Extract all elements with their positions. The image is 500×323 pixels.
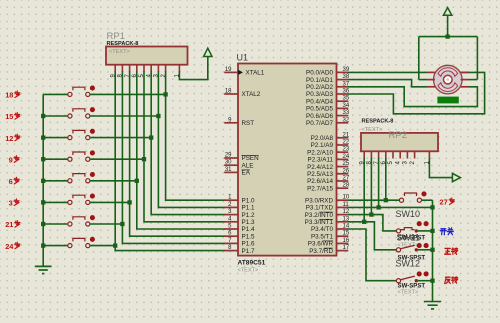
svg-text:P0.6/AD6: P0.6/AD6 <box>306 113 333 120</box>
button 21步 left terminal <box>68 222 72 226</box>
wire power stem <box>447 15 449 36</box>
junction bus row 2 <box>41 114 45 118</box>
wire power left drop <box>418 37 420 80</box>
svg-text:34: 34 <box>343 103 350 109</box>
wire RP1 pin 3 to P1.1 <box>158 71 225 207</box>
label 6步 glyph <box>14 177 19 184</box>
wire bus to button row 3 <box>43 137 68 139</box>
svg-text:P1.7: P1.7 <box>242 248 255 255</box>
motor left pin stub y=79.6 <box>427 79 435 81</box>
svg-text:XTAL2: XTAL2 <box>242 91 261 98</box>
RP2 pin 6 lead <box>385 151 387 158</box>
wire button 27 to bus <box>422 199 433 201</box>
button 21步 right terminal <box>86 222 90 226</box>
switch SW12 marker dots <box>417 271 422 276</box>
button 3步 actuator bar <box>73 195 85 198</box>
switch SW12 lever <box>401 276 415 280</box>
pin 11 lead <box>337 206 349 208</box>
button 18步 right terminal <box>86 92 90 96</box>
button 9步 actuator bar <box>73 152 85 155</box>
svg-text:AT89C51: AT89C51 <box>238 260 266 267</box>
svg-text:3: 3 <box>9 199 13 208</box>
svg-text:29: 29 <box>225 153 232 159</box>
button 6步 right terminal <box>86 179 90 183</box>
button 15步 left terminal <box>68 114 72 118</box>
svg-text:P0.0/AD0: P0.0/AD0 <box>306 70 333 77</box>
pin 34 lead <box>337 107 349 109</box>
switch SW10 marker dots <box>417 221 422 226</box>
button 24步 actuator bar <box>73 238 85 241</box>
svg-text:P3.2/INT0: P3.2/INT0 <box>305 212 334 219</box>
button 3步 marker dot <box>90 194 95 199</box>
svg-text:6: 6 <box>9 177 13 186</box>
wire P3.0 to button <box>348 199 399 201</box>
svg-text:21: 21 <box>343 132 350 138</box>
pin 25 lead <box>337 166 349 168</box>
wire SW12 to bus <box>418 280 433 282</box>
power terminal (RP1) <box>204 48 212 56</box>
label 15步 glyph <box>15 113 20 120</box>
pin 29 lead <box>224 157 238 159</box>
button 21步 marker dot <box>90 215 95 220</box>
svg-text:21: 21 <box>5 220 13 229</box>
svg-text:P0.1/AD1: P0.1/AD1 <box>306 77 333 84</box>
wire P3.4 to SW12 <box>348 229 396 281</box>
wire power right to motor <box>469 79 478 81</box>
button 18步 marker dot <box>90 86 95 91</box>
wire RP1 pin 8 to P1.6 <box>122 71 225 243</box>
RP2 pin 1 lead <box>428 151 430 158</box>
svg-text:9: 9 <box>9 155 13 164</box>
button 24步 marker dot <box>90 237 95 242</box>
RP2 pin 5 lead <box>392 151 394 158</box>
button 12步 right terminal <box>86 136 90 140</box>
button 15步 marker dot <box>90 107 95 112</box>
RP2 pin 7 lead <box>378 151 380 158</box>
power terminal (RP2) <box>452 173 460 181</box>
button 3步 right terminal <box>86 200 90 204</box>
pin 8 lead <box>224 250 238 252</box>
motor label block <box>437 97 458 104</box>
button 3步 left terminal <box>68 200 72 204</box>
svg-text:P3.7/RD: P3.7/RD <box>309 248 333 255</box>
button 15步 right terminal <box>86 114 90 118</box>
wire button row 8 to RP1 column <box>90 245 115 247</box>
wire power right drop <box>476 37 478 80</box>
wire RP1 pin 6 to P1.4 <box>137 71 225 229</box>
button 18步 actuator bar <box>73 87 85 90</box>
wire bus to button row 2 <box>43 115 68 117</box>
svg-text:35: 35 <box>343 96 350 102</box>
pin 33 lead <box>337 115 349 117</box>
label reverse(fanzhuan) <box>445 277 451 283</box>
label 18步 glyph <box>15 91 20 98</box>
wire RP1 pin 7 to P1.5 <box>130 71 225 236</box>
svg-text:RP2: RP2 <box>389 130 407 141</box>
RP2 pin 3 lead <box>406 151 408 158</box>
motor hub center <box>447 78 450 81</box>
svg-text:RST: RST <box>242 120 255 127</box>
svg-text:19: 19 <box>225 67 232 73</box>
svg-text:RESPACK-8: RESPACK-8 <box>107 41 139 47</box>
wire P3.3 to SW11 <box>348 222 396 250</box>
svg-text:U1: U1 <box>237 53 249 63</box>
junction row 5 on column <box>135 179 139 183</box>
motor hub <box>444 75 453 84</box>
XTAL1 clock marker <box>238 70 243 75</box>
button 27 actuator bar <box>405 193 417 196</box>
svg-text:23: 23 <box>343 147 350 153</box>
power terminal (motor) <box>443 8 451 16</box>
switch SW12 right terminal <box>415 279 418 282</box>
pin 35 lead <box>337 100 349 102</box>
motor right pin stub y=86.8 <box>461 86 469 88</box>
stepper motor body <box>434 65 463 94</box>
svg-text:XTAL1: XTAL1 <box>246 70 265 77</box>
svg-text:27: 27 <box>440 198 448 207</box>
svg-text:EA: EA <box>242 170 251 177</box>
svg-text:P2.7/A15: P2.7/A15 <box>307 185 333 192</box>
button 12步 left terminal <box>68 136 72 140</box>
RP2 pin 4 lead <box>399 151 401 158</box>
junction bus row 6 <box>41 200 45 204</box>
junction bus row 5 <box>41 179 45 183</box>
label 24步 glyph <box>15 242 20 249</box>
svg-text:22: 22 <box>343 140 350 146</box>
svg-text:15: 15 <box>5 112 13 121</box>
ground (right) <box>424 302 441 309</box>
pin 23 lead <box>337 151 349 153</box>
svg-text:31: 31 <box>225 167 232 173</box>
svg-text:<TEXT>: <TEXT> <box>238 268 259 274</box>
motor pole arc bottom <box>438 83 458 92</box>
wire bus to button row 1 <box>43 93 68 95</box>
svg-text:P1.3: P1.3 <box>242 219 255 226</box>
switch SW11 left terminal <box>396 248 400 252</box>
switch SW12 left terminal <box>396 279 400 283</box>
pin 16 lead <box>337 242 349 244</box>
wire bus to button row 6 <box>43 201 68 203</box>
pin 7 lead <box>224 242 238 244</box>
wire button row 1 to RP1 column <box>90 93 166 95</box>
left ground bus <box>42 94 44 266</box>
junction P3.3 pull-up <box>362 220 366 224</box>
button 12步 actuator bar <box>73 130 85 133</box>
pin 2 lead <box>224 206 238 208</box>
wire P3.2 to SW10 <box>348 215 396 231</box>
motor left pin stub y=86.8 <box>427 86 435 88</box>
svg-text:RESPACK-8: RESPACK-8 <box>362 119 394 125</box>
svg-text:25: 25 <box>343 161 350 167</box>
pin 24 lead <box>337 158 349 160</box>
svg-text:ALE: ALE <box>242 162 254 169</box>
resistor pack RP2 body <box>361 133 438 151</box>
RP1 pin 4 lead <box>150 65 152 72</box>
junction bus row 7 <box>41 222 45 226</box>
switch SW11 lever <box>401 245 415 249</box>
junction bus row 8 <box>41 243 45 247</box>
wire bus to button row 8 <box>43 245 68 247</box>
svg-text:P0.5/AD5: P0.5/AD5 <box>306 106 333 113</box>
wire RP2 pin8 to P3.2 <box>370 158 372 215</box>
junction row 1 on column <box>163 92 167 96</box>
button 6步 actuator bar <box>73 174 85 177</box>
button 9步 marker dot <box>90 150 95 155</box>
svg-text:P1.1: P1.1 <box>242 205 255 212</box>
svg-text:<TEXT>: <TEXT> <box>362 127 383 133</box>
svg-text:P0.4/AD4: P0.4/AD4 <box>306 98 333 105</box>
pin 18 lead <box>224 93 238 95</box>
svg-text:SW11: SW11 <box>397 232 420 242</box>
label forward(zhengzhuan) <box>445 248 451 254</box>
pin 5 lead <box>224 228 238 230</box>
pin 12 lead <box>337 214 349 216</box>
svg-text:P0.3/AD3: P0.3/AD3 <box>306 91 333 98</box>
button 24步 left terminal <box>68 244 72 248</box>
junction P3.0 pull-up <box>384 198 388 202</box>
switch SW11 right terminal <box>415 248 418 251</box>
svg-text:P0.2/AD2: P0.2/AD2 <box>306 84 333 91</box>
pin 13 lead <box>337 221 349 223</box>
svg-text:28: 28 <box>343 183 350 189</box>
label 27step glyph <box>449 198 454 205</box>
pin 26 lead <box>337 173 349 175</box>
wire P0.3 to motor <box>348 72 485 113</box>
junction SW11 on bus <box>430 248 434 252</box>
wire SW11 to bus <box>418 249 433 251</box>
RP1 pin 3 lead <box>157 65 159 72</box>
button 15步 actuator bar <box>73 109 85 112</box>
svg-text:30: 30 <box>225 160 232 166</box>
svg-text:P3.4/T0: P3.4/T0 <box>311 226 334 233</box>
junction row 2 on column <box>156 114 160 118</box>
MCU U1 body <box>238 64 337 256</box>
wire RP2 pin6 to P3.0 <box>385 158 387 200</box>
pin 4 lead <box>224 221 238 223</box>
wire power left to motor <box>419 79 427 81</box>
wire bus to button row 4 <box>43 158 68 160</box>
pin 36 lead <box>337 93 349 95</box>
button 6步 marker dot <box>90 172 95 177</box>
junction SW12 on bus <box>430 279 434 283</box>
wire RP1 pin 5 to P1.3 <box>144 71 225 222</box>
svg-text:P2.6/A14: P2.6/A14 <box>307 178 333 185</box>
motor left pin stub y=72.4 <box>427 71 435 73</box>
button 9步 right terminal <box>86 157 90 161</box>
button 24步 right terminal <box>86 244 90 248</box>
RP2 pin 9 lead <box>363 151 365 158</box>
pin 15 lead <box>337 235 349 237</box>
junction row 3 on column <box>149 135 153 139</box>
pin 10 lead <box>337 199 349 201</box>
junction P3.1 pull-up <box>376 205 380 209</box>
svg-text:P1.6: P1.6 <box>242 241 255 248</box>
label 9步 glyph <box>14 156 19 163</box>
pin 1 lead <box>224 199 238 201</box>
junction SW10 on bus <box>430 229 434 233</box>
pin 22 lead <box>337 144 349 146</box>
label 3步 glyph <box>14 199 19 206</box>
button 9步 left terminal <box>68 157 72 161</box>
motor right pin stub y=72.4 <box>461 71 469 73</box>
RP1 pin 5 lead <box>143 65 145 72</box>
wire P0.0 to motor <box>348 71 427 73</box>
button 27 right terminal <box>417 198 421 202</box>
pin 14 lead <box>337 228 349 230</box>
junction row 6 on column <box>127 200 131 204</box>
svg-text:P2.1/A9: P2.1/A9 <box>311 142 334 149</box>
wire RP2 pin7 to P3.1 <box>378 158 380 208</box>
svg-text:PSEN: PSEN <box>242 155 260 162</box>
svg-text:<TEXT>: <TEXT> <box>398 290 419 296</box>
svg-text:26: 26 <box>343 168 350 174</box>
svg-text:P0.7/AD7: P0.7/AD7 <box>306 120 333 127</box>
button 6步 left terminal <box>68 179 72 183</box>
label switch(kaiguan) <box>440 229 446 235</box>
ground (left) <box>35 266 52 273</box>
svg-text:P1.2: P1.2 <box>242 212 255 219</box>
svg-text:P1.4: P1.4 <box>242 226 255 233</box>
svg-text:24: 24 <box>343 154 350 160</box>
RP1 pin 9 lead <box>114 65 116 72</box>
resistor pack RP1 body <box>106 47 188 65</box>
wire bus to button row 7 <box>43 223 68 225</box>
pin 21 lead <box>337 137 349 139</box>
wire SW10 to bus <box>418 230 433 232</box>
svg-text:P3.0/RXD: P3.0/RXD <box>305 197 333 204</box>
pin 38 lead <box>337 79 349 81</box>
svg-text:P2.4/A12: P2.4/A12 <box>307 164 333 171</box>
junction power rail <box>445 34 449 38</box>
svg-text:SW-SPST: SW-SPST <box>398 283 426 290</box>
button 12步 marker dot <box>90 129 95 134</box>
RP2 pin 8 lead <box>370 151 372 158</box>
svg-text:P3.3/INT1: P3.3/INT1 <box>305 219 334 226</box>
wire RP2 pin1 to power <box>429 158 452 178</box>
pin 17 lead <box>337 250 349 252</box>
pin 9 lead <box>224 122 238 124</box>
button 27 marker dot <box>421 191 426 196</box>
RP1 pin 6 lead <box>136 65 138 72</box>
button 27 left terminal <box>399 198 403 202</box>
junction row 4 on column <box>142 157 146 161</box>
wire bus to button row 5 <box>43 180 68 182</box>
svg-text:SW10: SW10 <box>396 209 421 219</box>
wire P3.1 to bus <box>348 206 433 208</box>
junction row 7 on column <box>120 222 124 226</box>
svg-text:P2.5/A13: P2.5/A13 <box>307 171 333 178</box>
svg-text:P2.3/A11: P2.3/A11 <box>308 157 334 164</box>
wire button row 3 to RP1 column <box>90 137 151 139</box>
junction P3.1 on bus <box>430 205 434 209</box>
wire button row 4 to RP1 column <box>90 158 144 160</box>
button 18步 left terminal <box>68 92 72 96</box>
RP1 pin 2 lead <box>165 65 167 72</box>
switch SW10 lever <box>401 228 415 230</box>
svg-text:P1.5: P1.5 <box>242 233 255 240</box>
svg-text:SW12: SW12 <box>396 259 421 269</box>
svg-text:P2.0/A8: P2.0/A8 <box>311 135 334 142</box>
wire button row 5 to RP1 column <box>90 180 137 182</box>
svg-text:12: 12 <box>5 134 13 143</box>
pin 19 lead <box>224 71 238 73</box>
right ground bus <box>432 200 434 301</box>
switch SW11 marker dots <box>417 243 422 248</box>
pin 27 lead <box>337 180 349 182</box>
label 21步 glyph <box>15 221 20 228</box>
svg-text:P2.2/A10: P2.2/A10 <box>307 149 333 156</box>
RP2 pin 2 lead <box>414 151 416 158</box>
wire button row 6 to RP1 column <box>90 201 130 203</box>
pin 6 lead <box>224 235 238 237</box>
button 21步 actuator bar <box>73 217 85 220</box>
RP1 pin 1 lead <box>178 65 180 72</box>
svg-text:16: 16 <box>343 238 350 244</box>
junction P3.2 pull-up <box>369 212 373 216</box>
pin 3 lead <box>224 214 238 216</box>
svg-text:24: 24 <box>5 242 14 251</box>
switch SW10 left terminal <box>396 229 400 233</box>
svg-text:RP1: RP1 <box>107 31 125 42</box>
wire button row 2 to RP1 column <box>90 115 158 117</box>
pin 32 lead <box>337 122 349 124</box>
motor right pin stub y=79.6 <box>461 79 469 81</box>
label 12步 glyph <box>15 134 20 141</box>
wire RP1 pin 9 to P1.7 <box>115 71 225 251</box>
wire RP1 pin 2 to P1.0 <box>166 71 225 200</box>
svg-text:18: 18 <box>5 91 13 100</box>
wire RP1 pin1 to power <box>179 57 207 80</box>
pin 39 lead <box>337 71 349 73</box>
wire P0.2 to motor <box>348 87 477 107</box>
svg-text:P3.1/TXD: P3.1/TXD <box>306 205 334 212</box>
wire RP2 pin9 to P3.3 <box>363 158 365 222</box>
svg-text:P3.5/T1: P3.5/T1 <box>311 233 334 240</box>
RP1 pin 8 lead <box>121 65 123 72</box>
svg-text:15: 15 <box>343 231 350 237</box>
pin 37 lead <box>337 86 349 88</box>
wire power rail <box>419 36 478 38</box>
svg-text:18: 18 <box>225 89 232 95</box>
pin 30 lead <box>224 164 238 166</box>
switch SW10 right terminal <box>415 229 418 232</box>
wire RP1 pin 4 to P1.2 <box>151 71 225 215</box>
motor pole arc top <box>438 68 458 77</box>
svg-text:32: 32 <box>343 117 350 123</box>
svg-text:P3.6/WR: P3.6/WR <box>308 241 334 248</box>
pin 28 lead <box>337 187 349 189</box>
svg-text:17: 17 <box>343 245 350 251</box>
svg-text:27: 27 <box>343 176 350 182</box>
junction bus row 4 <box>41 157 45 161</box>
wire button row 7 to RP1 column <box>90 223 123 225</box>
svg-text:33: 33 <box>343 110 350 116</box>
svg-text:<TEXT>: <TEXT> <box>109 49 130 55</box>
RP1 pin 7 lead <box>129 65 131 72</box>
pin 31 lead <box>224 171 238 173</box>
junction bus row 3 <box>41 135 45 139</box>
junction row 8 on column <box>113 243 117 247</box>
svg-text:P1.0: P1.0 <box>242 197 255 204</box>
wire P0.1 to motor <box>348 80 427 87</box>
